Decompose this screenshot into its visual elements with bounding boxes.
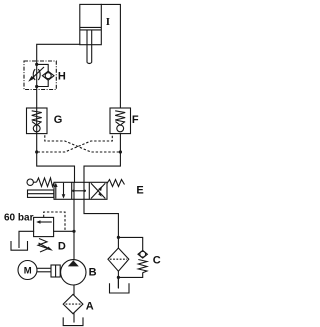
svg-text:E: E xyxy=(136,185,143,197)
svg-text:D: D xyxy=(58,241,66,253)
svg-text:H: H xyxy=(58,70,66,82)
svg-text:G: G xyxy=(54,114,63,126)
svg-text:A: A xyxy=(86,301,94,313)
svg-text:F: F xyxy=(132,114,139,126)
svg-text:C: C xyxy=(153,255,161,267)
svg-text:M: M xyxy=(24,266,32,277)
svg-text:60 bar: 60 bar xyxy=(4,213,34,224)
svg-text:I: I xyxy=(106,16,110,28)
svg-text:B: B xyxy=(89,267,97,279)
